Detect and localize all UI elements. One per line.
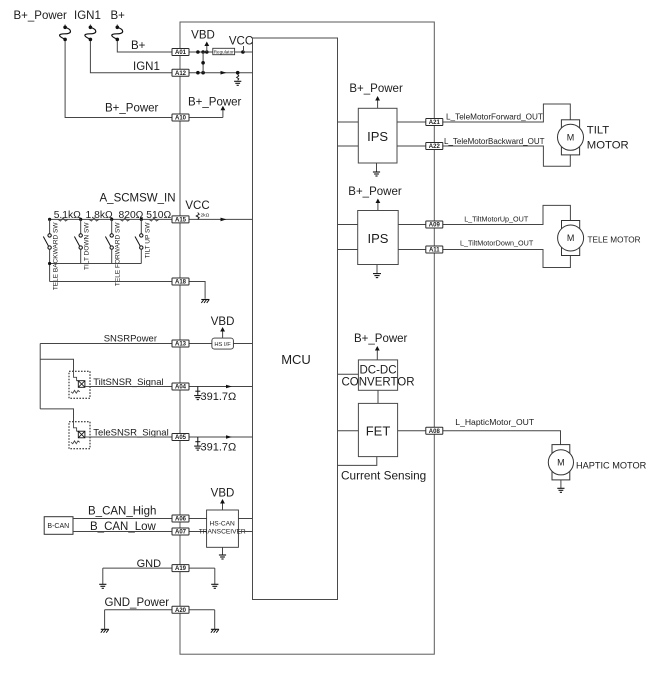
direction arrow on A05 wire	[226, 435, 232, 439]
svg-text:A07: A07	[175, 530, 187, 536]
junction dot VCC node	[241, 50, 245, 54]
switch S1 TELE BACKWARD SW	[48, 218, 51, 221]
svg-text:IPS: IPS	[368, 231, 389, 246]
svg-text:A09: A09	[429, 223, 441, 229]
svg-text:A19: A19	[175, 566, 187, 572]
wire MCU to IPS2 in2	[338, 249, 358, 251]
wire pin A10 to B+_Power stub	[189, 117, 223, 119]
resistor R3 inline 820	[120, 218, 130, 221]
svg-text:A13: A13	[175, 342, 187, 348]
svg-text:VCC: VCC	[229, 36, 253, 48]
svg-text:A22: A22	[429, 144, 441, 150]
svg-text:M: M	[557, 458, 565, 468]
wire IPS1 to pin A22	[397, 145, 426, 147]
wire TeleSNSR to pin A05	[90, 436, 172, 438]
wire pin A22 to tilt motor	[443, 146, 571, 166]
direction arrow on A12 wire	[221, 71, 227, 75]
wire pin A05 to MCU	[189, 436, 253, 438]
chassis ground left GND_Power	[101, 628, 109, 630]
svg-text:391.7Ω: 391.7Ω	[201, 391, 237, 403]
wire transceiver to MCU high	[238, 518, 252, 520]
IPS U5 box	[358, 108, 397, 163]
ground stub right of A19	[214, 568, 216, 584]
svg-text:TILT: TILT	[587, 124, 609, 136]
svg-text:MOTOR: MOTOR	[587, 140, 629, 152]
resistor to ground on A12 node	[237, 75, 239, 81]
svg-text:A20: A20	[175, 608, 187, 614]
svg-text:A08: A08	[429, 429, 441, 435]
chassis ground right GND_Power	[211, 628, 219, 630]
svg-text:B+_Power: B+_Power	[188, 97, 242, 109]
svg-text:L_HapticMotor_OUT: L_HapticMotor_OUT	[455, 417, 535, 427]
junction dots on A12 wire	[196, 71, 200, 75]
svg-text:IGN1: IGN1	[74, 10, 101, 22]
wire MCU to FET gate	[338, 430, 359, 432]
wire DC-DC to FET	[377, 390, 379, 403]
wire pin A11 to tele motor	[443, 250, 571, 268]
resistor R2 inline 1.8k	[89, 218, 99, 221]
pin A08	[426, 427, 443, 434]
ground symbol A12 node	[234, 80, 241, 82]
svg-text:TILT DOWN SW: TILT DOWN SW	[84, 222, 91, 270]
svg-text:SNSRPower: SNSRPower	[104, 333, 157, 344]
junction dot A12 filter node	[236, 71, 240, 75]
resistor R4 inline 510	[149, 218, 159, 221]
fuse F1 B+_Power	[64, 25, 66, 28]
fuse F2 IGN1	[89, 25, 91, 28]
svg-text:L_TeleMotorBackward_OUT: L_TeleMotorBackward_OUT	[444, 137, 545, 146]
svg-text:B+_Power: B+_Power	[349, 83, 403, 95]
B-CAN connector box	[44, 517, 73, 535]
B+_Power arrow at DC-DC	[376, 350, 378, 360]
svg-text:TELE BACKWARD SW: TELE BACKWARD SW	[53, 222, 60, 291]
junction dots on A01 wire	[196, 50, 200, 54]
svg-text:A05: A05	[175, 435, 187, 441]
wire pin A18 to ground	[189, 282, 205, 299]
switch S3 TELE FORWARD SW	[110, 218, 113, 221]
tele motor M2	[562, 221, 580, 256]
switch S2 TILT DOWN SW	[79, 218, 82, 221]
ground symbol right GND	[211, 583, 218, 585]
svg-text:B_CAN_High: B_CAN_High	[88, 505, 156, 517]
pull-down capacitor/ground at A05	[197, 437, 199, 446]
svg-text:B+_Power: B+_Power	[348, 186, 402, 198]
wire pin A15 to MCU	[189, 218, 253, 220]
pin A07	[172, 528, 189, 535]
svg-text:Current Sensing: Current Sensing	[341, 469, 426, 483]
svg-text:HAPTIC MOTOR: HAPTIC MOTOR	[576, 461, 647, 471]
wire HS I/F to MCU	[233, 343, 252, 345]
svg-text:B+: B+	[131, 40, 146, 52]
wire regulator to MCU VCC	[235, 51, 253, 53]
wire SNSRPower to pin A13	[40, 343, 172, 345]
svg-text:A_SCMSW_IN: A_SCMSW_IN	[100, 192, 176, 204]
wire pin A13 to HS I/F	[189, 343, 212, 345]
ground at IPS1	[376, 163, 378, 172]
svg-text:A04: A04	[175, 385, 187, 391]
FET Q1 box	[358, 403, 397, 456]
pin A22	[426, 143, 443, 150]
pin A21	[426, 119, 443, 126]
wire MCU to DC-DC	[338, 373, 359, 375]
VCC pull-up 2k resistor	[196, 213, 199, 220]
VBD arrow at transceiver	[222, 503, 224, 511]
svg-text:M: M	[567, 133, 575, 143]
current sensing feedback wire	[338, 457, 377, 466]
wire B_CAN_High to pin A06	[73, 518, 172, 520]
svg-text:A06: A06	[175, 517, 187, 523]
svg-text:A12: A12	[175, 71, 187, 77]
ground stub left of A19	[102, 568, 104, 584]
svg-text:VBD: VBD	[211, 488, 235, 500]
switch ladder bus wire	[50, 218, 172, 220]
wire switch return to pin A18	[50, 281, 172, 283]
wire GND_Power through pin A20	[105, 609, 215, 611]
svg-text:HS I/F: HS I/F	[214, 342, 231, 348]
svg-text:A01: A01	[175, 50, 187, 56]
wire pin A06 to transceiver	[189, 518, 207, 520]
svg-text:HS-CAN: HS-CAN	[210, 521, 236, 528]
resistor R1 inline 5.1k	[58, 218, 68, 221]
pin A18	[172, 278, 189, 285]
sensor supply bus wire	[39, 344, 41, 409]
wire MCU to IPS1 in2	[338, 145, 359, 147]
HS I/F U3 box	[212, 338, 234, 349]
svg-text:M: M	[567, 233, 575, 243]
wire branch to TiltSNSR	[40, 359, 73, 371]
wire pin A01 to regulator	[189, 51, 213, 53]
sensor TeleSNSR dotted box	[69, 422, 90, 449]
svg-text:DC-DC: DC-DC	[359, 365, 396, 377]
chassis ground at A18	[201, 299, 209, 301]
HS-CAN transceiver U4 box	[207, 510, 239, 547]
svg-text:IGN1: IGN1	[133, 61, 160, 73]
svg-text:B+: B+	[111, 10, 126, 22]
wire IPS1 to pin A21	[397, 121, 426, 123]
tilt motor M1	[561, 120, 579, 155]
svg-text:B+_Power: B+_Power	[105, 103, 159, 115]
svg-text:FET: FET	[366, 424, 391, 439]
switch bottom bus wire	[50, 263, 142, 265]
pin A09	[426, 221, 443, 228]
ground stub left of A20	[104, 610, 106, 629]
wire IPS2 to pin A11	[398, 249, 426, 251]
svg-text:A10: A10	[175, 116, 187, 122]
VBD power arrow	[206, 46, 208, 53]
fuse F3 B+	[116, 25, 118, 28]
svg-text:VBD: VBD	[211, 316, 235, 328]
svg-text:L_TiltMotorDown_OUT: L_TiltMotorDown_OUT	[460, 239, 534, 248]
svg-text:A21: A21	[429, 120, 441, 126]
svg-text:VBD: VBD	[191, 30, 215, 42]
pin A10	[172, 114, 189, 121]
pull-down capacitor/ground at A04	[197, 387, 199, 396]
wire MCU to IPS2 in1	[338, 224, 358, 226]
svg-text:B+_Power: B+_Power	[354, 333, 408, 345]
pin A20	[172, 606, 189, 613]
direction arrow on A15 wire	[221, 218, 227, 222]
VBD arrow at HS I/F	[222, 330, 224, 338]
wire transceiver to MCU low	[238, 531, 252, 533]
svg-text:B+_Power: B+_Power	[14, 10, 68, 22]
wire pin A21 to tilt motor	[443, 104, 571, 122]
wire IPS2 to pin A09	[398, 224, 426, 226]
sensor TiltSNSR dotted box	[69, 371, 90, 398]
wire IGN1 fuse to pin A12	[90, 41, 172, 73]
wire TiltSNSR to pin A04	[90, 386, 172, 388]
wire B_CAN_Low to pin A07	[73, 531, 172, 533]
pin A13	[172, 340, 189, 347]
svg-text:TELE FORWARD SW: TELE FORWARD SW	[115, 222, 122, 286]
DC-DC convertor U7 box	[358, 360, 397, 390]
svg-text:A11: A11	[429, 248, 440, 254]
B+_Power arrow at IPS1	[377, 100, 379, 109]
pin A01	[172, 49, 189, 56]
pin A15	[172, 216, 189, 223]
pin A11	[426, 246, 443, 253]
svg-text:A18: A18	[175, 280, 187, 286]
svg-text:IPS: IPS	[367, 129, 388, 144]
wire pin A08 to haptic motor	[443, 431, 561, 445]
ground at haptic motor	[560, 480, 562, 488]
svg-text:B-CAN: B-CAN	[47, 523, 69, 530]
haptic motor M3	[552, 445, 570, 480]
switch S4 TILT UP SW	[140, 218, 143, 221]
svg-text:GND_Power: GND_Power	[105, 597, 170, 609]
svg-text:L_TiltMotorUp_OUT: L_TiltMotorUp_OUT	[464, 214, 529, 223]
pin A04	[172, 383, 189, 390]
ground at IPS2	[376, 265, 378, 274]
wire MCU to IPS1 in1	[338, 121, 359, 123]
svg-text:VCC: VCC	[185, 200, 209, 212]
pin A06	[172, 515, 189, 522]
wire B+ fuse to pin A01	[117, 41, 172, 52]
wire B+_Power fuse to pin A10	[65, 41, 172, 118]
MCU U1 box	[253, 38, 338, 600]
direction arrow on A04 wire	[226, 385, 232, 389]
wire GND through pin A19	[103, 567, 215, 569]
svg-text:2kΩ: 2kΩ	[201, 213, 210, 219]
svg-text:391.7Ω: 391.7Ω	[201, 441, 237, 453]
pin A12	[172, 69, 189, 76]
wire pin A07 to transceiver	[189, 531, 207, 533]
svg-text:Regulator: Regulator	[214, 49, 234, 54]
svg-text:L_TeleMotorForward_OUT: L_TeleMotorForward_OUT	[446, 113, 543, 122]
ground symbol left GND	[99, 583, 106, 585]
B+_Power arrow stub	[222, 109, 224, 118]
wire branch to TeleSNSR	[40, 409, 73, 422]
ground at transceiver	[222, 547, 224, 554]
pin A05	[172, 434, 189, 441]
wire pin A09 to tele motor	[443, 205, 571, 224]
wire pin A04 to MCU	[189, 386, 253, 388]
svg-text:TILT UP SW: TILT UP SW	[144, 222, 151, 259]
svg-text:CONVERTOR: CONVERTOR	[341, 377, 414, 389]
connector/module outer boundary box	[180, 22, 434, 654]
svg-text:MCU: MCU	[281, 352, 311, 367]
wire FET to pin A08	[398, 430, 426, 432]
svg-text:A15: A15	[175, 218, 187, 224]
pin A19	[172, 565, 189, 572]
B+_Power arrow at IPS2	[377, 202, 379, 211]
IPS U6 box	[358, 211, 399, 265]
regulator U2 box	[213, 48, 235, 54]
ground stub right of A20	[214, 610, 216, 629]
wire link A01 to A12 node	[202, 52, 204, 73]
svg-text:TELE MOTOR: TELE MOTOR	[588, 236, 641, 245]
VCC stub	[243, 46, 245, 52]
wire pin A12 to MCU	[189, 72, 253, 74]
